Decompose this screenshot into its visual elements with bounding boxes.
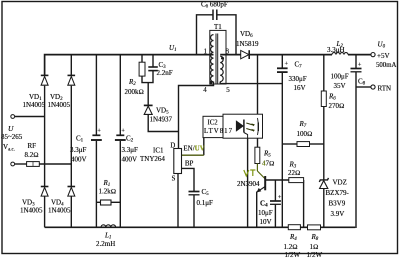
svg-text:1/2W: 1/2W [307, 251, 323, 259]
svg-text:BP: BP [185, 160, 194, 168]
svg-text:8: 8 [226, 48, 230, 56]
wire VD2 anode to VD4 cathode [70, 86, 72, 187]
wire opto emitter to EN/UV [203, 138, 205, 156]
output terminal RTN circle [371, 85, 375, 89]
svg-text:400V: 400V [71, 156, 87, 164]
svg-text:200kΩ: 200kΩ [125, 88, 144, 96]
svg-text:U: U [8, 124, 14, 133]
output terminal +5V circle [371, 53, 375, 57]
svg-text:B3V9: B3V9 [329, 200, 346, 208]
zener diode VDZ BZX79-B3V9 [319, 178, 328, 189]
svg-text:100μF: 100μF [331, 73, 349, 81]
svg-text:S: S [172, 175, 176, 183]
svg-text:1N4005: 1N4005 [23, 101, 46, 109]
capacitor C8 100uF 35V electrolytic [351, 62, 362, 72]
wire VD4 anode to bottom rail [70, 197, 72, 228]
wire C4 bottom leg [274, 204, 276, 227]
opto LED [236, 120, 247, 139]
opto-coupler IC2 LTV817 [203, 114, 263, 138]
resistor R1 1.2k [101, 200, 112, 205]
svg-text:8.2Ω: 8.2Ω [25, 151, 39, 159]
wire C1 top leg [95, 55, 97, 135]
wire transformer pin5 to C7 leg [220, 82, 282, 84]
resistor R4 1.2ohm 1/2W [288, 225, 300, 230]
svg-text:+: + [285, 61, 289, 68]
wire VD2 top drop [70, 55, 72, 76]
wire R1 parallel taps [96, 201, 100, 203]
wire VT emitter down [256, 192, 258, 228]
svg-text:RTN: RTN [378, 85, 392, 93]
wire C5 bottom leg [193, 195, 195, 228]
wire C2 bottom leg [119, 141, 121, 227]
wire IC1 BP pin to C5 [182, 168, 195, 191]
svg-text:16V: 16V [294, 84, 306, 92]
svg-text:3.3μF: 3.3μF [70, 146, 87, 154]
wire VD6 cathode to +5V terminal [249, 54, 332, 56]
wire C1 bottom leg [95, 141, 97, 227]
svg-text:2.2nF: 2.2nF [157, 69, 173, 77]
transformer phase dot primary [209, 81, 212, 84]
svg-text:D: D [170, 142, 175, 150]
opto light arrows [246, 123, 255, 132]
wire input terminal 1 to bridge [15, 116, 45, 118]
wire C3 top leg [152, 55, 154, 67]
wire bottom primary rail [45, 226, 356, 228]
svg-text:330μF: 330μF [289, 75, 307, 83]
svg-text:+: + [121, 128, 125, 135]
wire C6 snubber loop [197, 15, 214, 55]
capacitor C5 0.1uF [189, 192, 200, 195]
svg-text:1N4005: 1N4005 [20, 207, 43, 215]
transistor VT 2N3904 [256, 164, 265, 193]
svg-text:4: 4 [203, 86, 207, 94]
svg-text:T1: T1 [214, 23, 222, 31]
wire VT base line [266, 179, 289, 181]
diode VD4 1N4005 [68, 187, 76, 197]
wire R6 bottom to zener [323, 107, 325, 180]
IC1 TNY264 box [174, 149, 182, 174]
resistor R6 270ohm [321, 91, 326, 107]
svg-text:270Ω: 270Ω [329, 102, 345, 110]
svg-text:10V: 10V [260, 218, 272, 226]
wire EN/UV green segment [182, 154, 204, 156]
resistor R2 200k [139, 62, 145, 76]
wire C7 top leg [281, 55, 283, 68]
wire R2/C3 bottom join [142, 71, 153, 83]
svg-text:47Ω: 47Ω [262, 160, 274, 168]
transformer phase dot secondary [221, 57, 224, 60]
svg-text:1.2kΩ: 1.2kΩ [99, 188, 117, 196]
svg-text:100Ω: 100Ω [297, 130, 313, 138]
svg-text:22Ω: 22Ω [288, 169, 300, 177]
svg-text:35V: 35V [334, 82, 346, 90]
svg-text:3.3μH: 3.3μH [327, 46, 345, 54]
wire C7 bottom through R7 and base line to bottom rail [281, 72, 283, 227]
wire R3 right end down to sense junction [303, 180, 305, 227]
svg-text:EN/UV: EN/UV [183, 145, 204, 153]
wire R7 line right [310, 143, 324, 145]
svg-text:2.2mH: 2.2mH [96, 240, 115, 248]
capacitor C6 680pF [213, 10, 217, 21]
svg-text:3.3μF: 3.3μF [122, 146, 139, 154]
capacitor C3 2.2nF [148, 67, 158, 71]
pin EN/UV label [183, 145, 204, 153]
wire IC1 source to bottom rail [177, 174, 179, 228]
resistor R7 100ohm [297, 142, 310, 147]
svg-text:1N4005: 1N4005 [48, 207, 71, 215]
svg-text:0.1μF: 0.1μF [197, 199, 214, 207]
wire C2 top leg [119, 55, 121, 135]
diode VD1 1N4005 [41, 75, 49, 85]
transformer T1 [210, 30, 226, 84]
wire transformer pin4 to IC1 drain [179, 82, 214, 149]
svg-text:10μF: 10μF [258, 209, 273, 217]
svg-text:85~265: 85~265 [1, 133, 23, 141]
wire R7 line left [282, 143, 297, 145]
svg-text:TNY264: TNY264 [140, 155, 165, 163]
svg-text:BZX79-: BZX79- [326, 189, 350, 197]
inductor L1 2.2mH [101, 225, 116, 227]
wire R2 top leg [141, 55, 143, 63]
resistor R3 22ohm [289, 178, 304, 183]
svg-text:VDZ: VDZ [333, 179, 347, 187]
resistor R8 1ohm 1/2W [308, 225, 321, 230]
input terminal circle 1 [11, 115, 15, 119]
svg-text:1.2Ω: 1.2Ω [284, 243, 298, 251]
capacitor C2 3.3uF 400V electrolytic [115, 128, 126, 141]
wire C8 top leg [355, 55, 357, 69]
svg-text:400V: 400V [122, 156, 138, 164]
input terminal circle 2 [11, 162, 15, 166]
svg-text:3.9V: 3.9V [331, 210, 345, 218]
diode VD6 1N5819 [241, 50, 250, 59]
svg-text:1N4005: 1N4005 [48, 101, 71, 109]
svg-text:C6 680pF: C6 680pF [201, 1, 228, 10]
wire C4 top leg [274, 180, 276, 201]
wire join to VD5 [147, 83, 149, 106]
wire opto pin down to bottom rail [247, 138, 249, 227]
wire zener anode to bottom rail [323, 189, 325, 228]
capacitor C4 10uF 10V electrolytic [270, 194, 282, 204]
svg-text:500mA: 500mA [376, 62, 396, 69]
wire opto LED feed from +5V rail [257, 55, 259, 115]
wire opto to R5 [257, 138, 259, 147]
svg-text:1N5819: 1N5819 [236, 40, 259, 48]
svg-text:1Ω: 1Ω [310, 243, 319, 251]
wire VD3 anode to bottom rail [44, 197, 46, 228]
diode VD5 1N4937 [144, 105, 153, 114]
svg-text:5: 5 [226, 86, 230, 94]
capacitor C1 3.3uF 400V electrolytic [91, 128, 102, 141]
resistor RF 8.2 ohm [25, 142, 40, 166]
svg-text:IC2: IC2 [208, 120, 219, 127]
svg-text:+5V: +5V [377, 52, 390, 60]
svg-text:1/2W: 1/2W [285, 251, 301, 259]
inductor L2 3.3uH [332, 53, 348, 55]
capacitor C7 330uF 16V electrolytic [277, 61, 289, 73]
wire top primary rail [45, 55, 214, 76]
wire R6 top from rail [323, 55, 325, 91]
wire RF to VD2/VD4 junction [39, 163, 71, 165]
svg-text:+: + [358, 62, 362, 69]
opto phototransistor [257, 118, 260, 135]
svg-text:IC1: IC1 [153, 147, 164, 155]
diode VD3 1N4005 [41, 187, 49, 197]
svg-text:RF: RF [28, 142, 37, 150]
wire VD1 anode to VD3 cathode [44, 86, 46, 187]
svg-text:+: + [97, 128, 101, 135]
resistor R5 47ohm [255, 147, 260, 163]
wire VD5 anode down to bottom rail [148, 115, 178, 132]
diode VD2 1N4005 [68, 75, 76, 85]
svg-text:+: + [278, 194, 282, 201]
wire input terminal 2 to RF [15, 163, 27, 165]
svg-text:1N4937: 1N4937 [150, 116, 173, 124]
svg-text:2N3904: 2N3904 [237, 180, 260, 188]
svg-text:LTV817: LTV817 [204, 128, 233, 135]
svg-text:1: 1 [204, 48, 208, 56]
wire secondary top rail to VD6 [220, 54, 240, 56]
wire RTN branch [356, 86, 371, 88]
wire C8 bottom leg to bottom rail [354, 72, 357, 228]
